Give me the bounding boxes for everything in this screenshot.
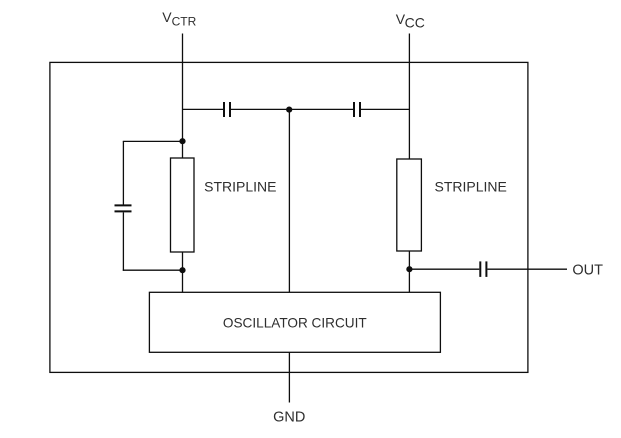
node A left top junction xyxy=(179,138,185,144)
net label VCC xyxy=(396,11,425,31)
wire stripline right bottom to oscillator xyxy=(408,251,410,292)
wire VCC vertical xyxy=(408,34,410,160)
stripline right block xyxy=(397,159,422,251)
wire feedback bottom xyxy=(123,269,183,271)
wire VCTR vertical xyxy=(182,34,184,159)
wire top coupling right xyxy=(361,108,409,110)
wire top coupling middle xyxy=(231,108,353,110)
wire output left xyxy=(409,268,479,270)
wire output right xyxy=(487,268,567,270)
capacitor C1 xyxy=(224,102,230,117)
wire middle vertical to oscillator xyxy=(288,109,290,292)
wire GND vertical xyxy=(288,352,290,402)
wire feedback left lower xyxy=(122,212,124,270)
svg-text:STRIPLINE: STRIPLINE xyxy=(435,179,507,195)
wire top coupling left xyxy=(183,108,224,110)
node C output junction xyxy=(406,266,412,272)
oscillator circuit block xyxy=(149,292,440,352)
node B left bottom junction xyxy=(179,267,185,273)
svg-text:GND: GND xyxy=(273,409,305,425)
capacitor C3 xyxy=(115,205,132,211)
wire stripline left bottom to oscillator xyxy=(182,252,184,292)
enclosure box xyxy=(50,62,528,372)
capacitor C4 xyxy=(480,261,486,277)
capacitor C2 xyxy=(354,102,360,117)
svg-text:OSCILLATOR CIRCUIT: OSCILLATOR CIRCUIT xyxy=(223,315,367,330)
net label VCTR xyxy=(162,9,196,29)
svg-text:STRIPLINE: STRIPLINE xyxy=(204,179,276,195)
node top junction xyxy=(286,107,292,113)
wire feedback left upper xyxy=(122,141,124,204)
svg-text:CC: CC xyxy=(405,15,425,31)
stripline left block xyxy=(171,158,195,252)
svg-text:OUT: OUT xyxy=(572,262,603,278)
svg-text:CTR: CTR xyxy=(172,15,197,29)
wire feedback top xyxy=(123,140,183,142)
